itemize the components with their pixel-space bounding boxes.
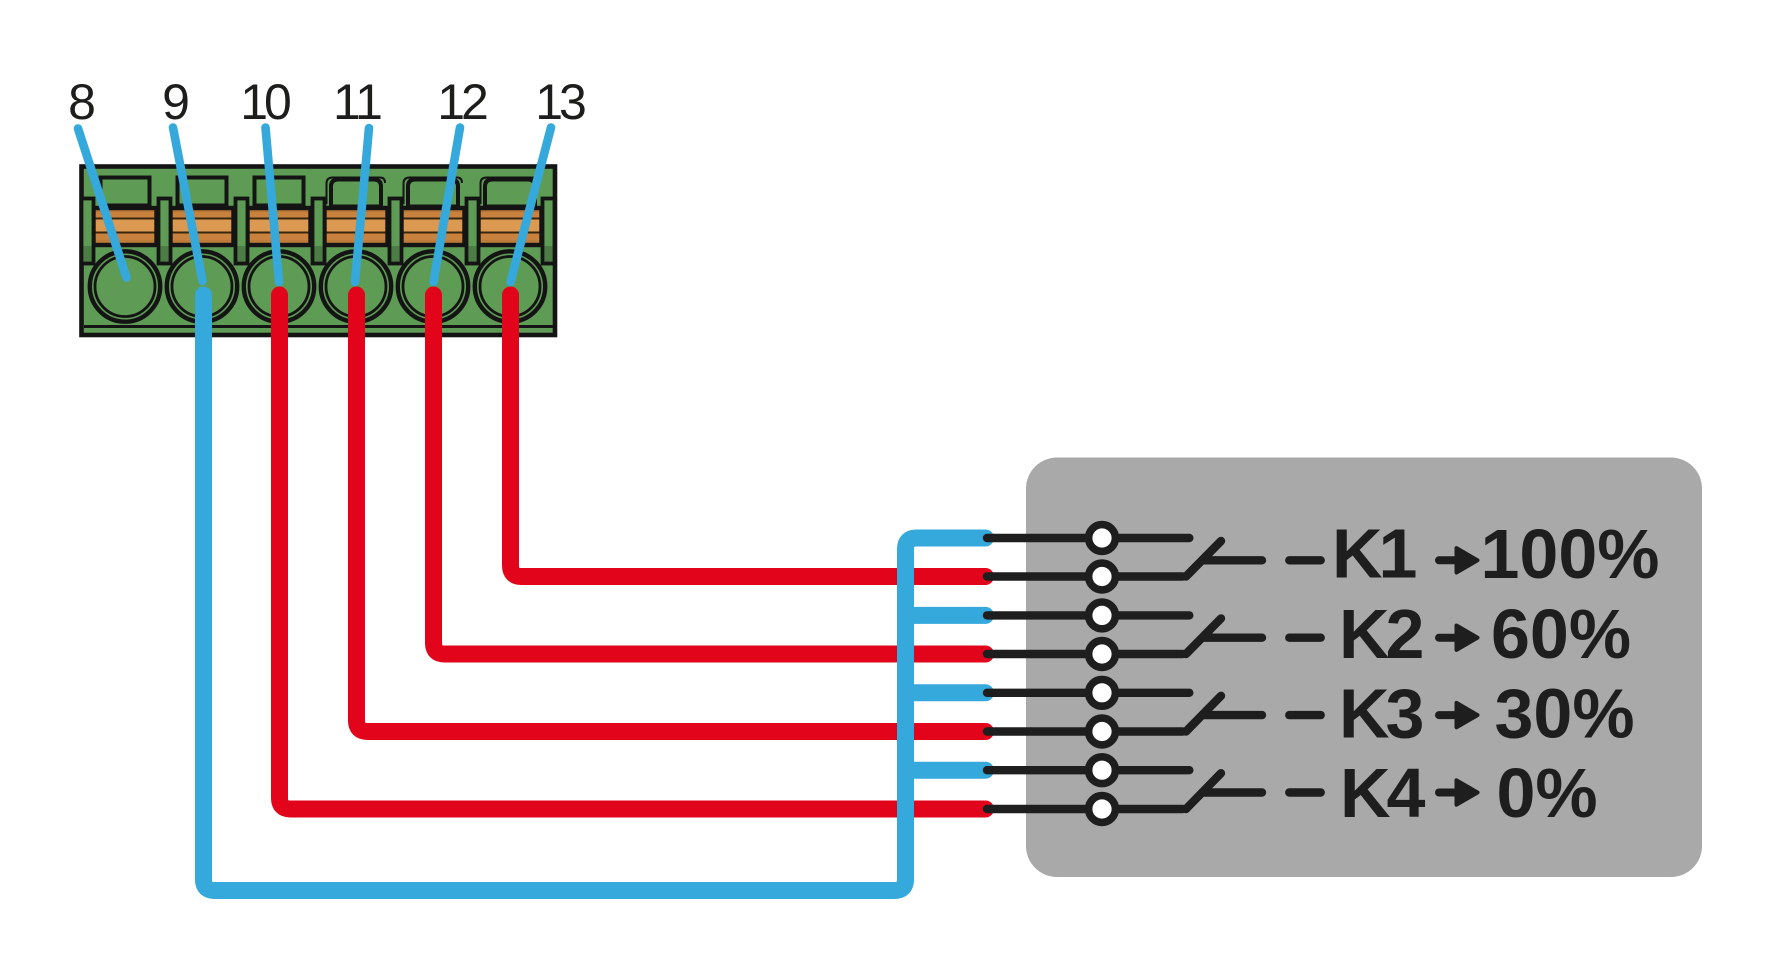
terminal block body bbox=[82, 167, 556, 336]
svg-text:12: 12 bbox=[437, 74, 487, 130]
svg-text:100%: 100% bbox=[1481, 515, 1660, 593]
relay K1 contact bbox=[987, 525, 1321, 590]
terminal cell 9 window bbox=[178, 178, 227, 206]
svg-text:8: 8 bbox=[68, 74, 96, 130]
separator tab bbox=[390, 199, 402, 264]
relay K2 contact bbox=[987, 602, 1321, 667]
separator tab bbox=[236, 199, 248, 264]
blue wire from terminal 9 bbox=[204, 295, 986, 891]
svg-text:K3: K3 bbox=[1339, 675, 1423, 753]
terminal cell 8 window bbox=[101, 178, 150, 206]
svg-text:11: 11 bbox=[333, 74, 381, 130]
terminal 10 wire port bbox=[244, 251, 314, 321]
red wire from terminal 13 to K1 bbox=[511, 295, 986, 577]
relay contacts bbox=[987, 525, 1478, 823]
terminal 9 wire port bbox=[167, 251, 237, 321]
svg-text:K4: K4 bbox=[1340, 754, 1426, 832]
leader 12 bbox=[434, 128, 461, 283]
svg-text:60%: 60% bbox=[1491, 595, 1631, 673]
terminal cell 11 window bbox=[327, 178, 386, 207]
arrow K4 bbox=[1439, 780, 1478, 804]
blue branch to K2 coil top bbox=[907, 607, 986, 624]
red wire from terminal 10 to K4 bbox=[280, 295, 986, 809]
svg-text:30%: 30% bbox=[1495, 675, 1635, 753]
terminal 8 wire port bbox=[90, 251, 160, 321]
leader 9 bbox=[173, 128, 203, 282]
terminal block inner bottom line bbox=[84, 325, 553, 328]
arrow K1 bbox=[1439, 548, 1478, 572]
terminal cell 12 window bbox=[404, 178, 463, 207]
terminal cell 10 clamp bar bbox=[248, 208, 311, 245]
arrow K3 bbox=[1439, 703, 1478, 727]
terminal cell 13 clamp bar bbox=[479, 208, 542, 245]
separator tab bbox=[82, 199, 94, 264]
separator tab bbox=[159, 199, 171, 264]
svg-text:13: 13 bbox=[535, 74, 585, 130]
terminal 13 wire port bbox=[475, 251, 545, 321]
terminal cells bbox=[82, 178, 555, 322]
terminal cell 12 clamp bar bbox=[402, 208, 465, 245]
terminal cell 10 window bbox=[255, 178, 304, 206]
svg-text:K1: K1 bbox=[1332, 515, 1416, 593]
leader 8 bbox=[78, 129, 127, 278]
terminal 11 wire port bbox=[321, 251, 391, 321]
svg-text:10: 10 bbox=[240, 74, 290, 130]
relay labels bbox=[1332, 515, 1660, 832]
arrow K2 bbox=[1439, 626, 1478, 650]
relay box bbox=[1026, 458, 1702, 878]
separator tab bbox=[313, 199, 325, 264]
leader 10 bbox=[266, 128, 280, 283]
relay K3 contact bbox=[987, 679, 1321, 745]
pin labels bbox=[68, 74, 585, 130]
terminal cell 9 clamp bar bbox=[171, 208, 234, 245]
leader 13 bbox=[511, 128, 552, 283]
svg-text:K2: K2 bbox=[1339, 595, 1423, 673]
terminal cell 8 clamp bar bbox=[94, 208, 157, 245]
separator tab bbox=[543, 199, 555, 264]
separator tab bbox=[467, 199, 479, 264]
leader lines bbox=[78, 128, 551, 283]
terminal cell 11 clamp bar bbox=[325, 208, 388, 245]
terminal cell 13 window bbox=[481, 178, 540, 207]
blue branch to K3 coil top bbox=[907, 684, 986, 701]
leader 11 bbox=[355, 128, 369, 282]
svg-text:9: 9 bbox=[162, 74, 190, 130]
terminal 12 wire port bbox=[398, 251, 468, 321]
red wire from terminal 11 to K3 bbox=[357, 295, 986, 732]
relay K4 contact bbox=[987, 757, 1321, 823]
svg-text:0%: 0% bbox=[1497, 754, 1598, 832]
blue branch to K4 coil top bbox=[907, 762, 986, 779]
red wire from terminal 12 to K2 bbox=[434, 295, 986, 654]
